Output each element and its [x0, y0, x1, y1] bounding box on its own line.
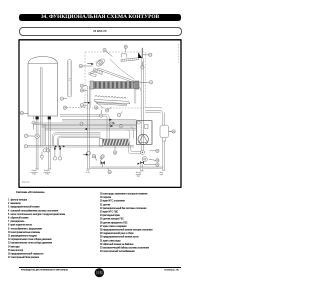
- tag 21 leader: [101, 158, 102, 161]
- numbered tag circles: [20, 45, 175, 174]
- air vent on pump: [137, 120, 148, 129]
- tag 15 leader: [106, 51, 112, 56]
- plate hx outlet elbow: [129, 146, 141, 154]
- tag 12: [149, 53, 152, 56]
- pressure test points: [53, 147, 62, 160]
- tag 11 leader: [84, 85, 87, 87]
- tag 28 leader: [169, 131, 172, 133]
- tag 10 leader: [84, 89, 87, 91]
- tag 3: [60, 97, 63, 100]
- legend left column: [8, 198, 65, 259]
- tag 24: [108, 170, 111, 173]
- tag 27: [80, 122, 83, 125]
- tag 21: [101, 155, 104, 158]
- heating return stub: [48, 119, 50, 169]
- main heat exchanger: [90, 81, 139, 89]
- tag 9 leader: [84, 104, 88, 106]
- tag 17: [105, 109, 108, 112]
- tag 2 leader: [28, 135, 35, 137]
- safety valve: [32, 116, 36, 129]
- tag 20: [92, 155, 95, 158]
- tag 13: [141, 66, 144, 69]
- combustion hood: [88, 59, 137, 83]
- diagram frame: [19, 40, 181, 188]
- fan: [95, 58, 105, 68]
- header banner: [19, 14, 181, 22]
- hydraulic inlet elbows: [127, 127, 133, 139]
- tag 4: [149, 81, 152, 84]
- filling valves: [43, 147, 50, 152]
- gas valve node: [83, 151, 90, 155]
- tag 19 leader: [67, 107, 85, 109]
- burner arrow: [83, 101, 88, 103]
- burner with injectors: [94, 96, 130, 109]
- fan arrow: [87, 62, 92, 65]
- tag 30: [156, 159, 159, 162]
- pipe run h7: [52, 133, 100, 146]
- legend left header: [16, 191, 45, 194]
- tag 23 leader: [114, 146, 116, 151]
- pipe run h3: [62, 120, 136, 121]
- footer left text: [21, 269, 68, 271]
- stub label: dhw outlet: [135, 172, 142, 177]
- expansion tank: [28, 57, 58, 117]
- tag 19: [63, 106, 66, 109]
- model pill: [19, 27, 182, 36]
- flow arrows on pipes: [55, 119, 115, 147]
- left riser pair: [44, 124, 45, 145]
- pipe run h9: [27, 146, 134, 147]
- flue duct dashed box: [177, 44, 179, 63]
- pipe run h6: [45, 129, 137, 130]
- tag 23: [113, 151, 116, 154]
- pipe run h8: [57, 136, 100, 146]
- pipe run h5: [42, 126, 137, 127]
- tag 18: [94, 106, 97, 109]
- stub label: heating flow: [30, 170, 38, 175]
- return tap valve: [35, 134, 39, 138]
- footer right code: [164, 269, 179, 271]
- gas riser pipe: [88, 86, 90, 169]
- stub label: heating return: [43, 170, 51, 175]
- flow stub tap square: [36, 117, 39, 120]
- pipe run h10 cold water bottom: [90, 167, 163, 168]
- tag 25: [119, 125, 122, 128]
- footer rule: [19, 266, 181, 269]
- legend right column: [100, 192, 153, 253]
- dhw flow sensor: [140, 150, 147, 161]
- tag 29: [156, 149, 159, 152]
- tag 24 leader: [108, 168, 109, 170]
- pipe run h2: [60, 115, 109, 139]
- tag 14: [79, 64, 82, 67]
- tank internal pipe: [41, 67, 43, 146]
- tag 22 leader: [24, 112, 29, 115]
- drain valve: [41, 152, 44, 160]
- plate heat exchanger: [99, 138, 130, 146]
- downcomer pipe: [141, 59, 143, 151]
- tag 1: [24, 145, 27, 148]
- page number badge: [95, 268, 104, 277]
- tag 7 leader: [120, 112, 123, 114]
- stub label: gas: [85, 170, 91, 174]
- tag 16 leader: [125, 49, 127, 53]
- dhw outlet stub: [141, 164, 143, 171]
- tag 31: [156, 163, 159, 166]
- hx right elbow: [135, 85, 141, 91]
- stub label: cold inlet: [159, 172, 164, 176]
- collector bracket: [121, 54, 127, 58]
- sealed chamber dashed box: [85, 52, 145, 108]
- dhw filter body: [160, 125, 172, 141]
- pump box: [136, 121, 152, 145]
- tag 4 leader: [140, 81, 149, 83]
- tag 30 leader: [149, 159, 156, 160]
- flue manifold: [121, 58, 139, 62]
- tag 8: [100, 114, 103, 117]
- bypass valve: [100, 156, 105, 167]
- tag 31 leader: [144, 164, 156, 166]
- return stub tap square: [48, 117, 51, 120]
- chamber side walls: [91, 89, 136, 107]
- tag 22: [20, 111, 23, 114]
- bottom-left note: [22, 181, 30, 183]
- tag 29 leader: [150, 150, 156, 152]
- cold water drop pipe: [163, 141, 165, 170]
- condensate tube: [67, 60, 71, 97]
- flue clamp flag: [138, 48, 142, 59]
- tag 20 leader: [95, 155, 96, 161]
- tag 2: [24, 134, 27, 137]
- tag 13 leader: [141, 62, 143, 66]
- tag 16: [124, 45, 127, 48]
- pipe run h1: [145, 111, 164, 126]
- venturi duct: [90, 68, 103, 77]
- tag 12 leader: [143, 54, 149, 56]
- tag 7: [117, 113, 120, 116]
- tag 28: [172, 130, 175, 133]
- dhw outlet valve: [140, 161, 144, 164]
- tag 14 leader: [82, 65, 92, 67]
- tag 17 leader: [108, 107, 111, 109]
- tag numerals: [21, 47, 176, 174]
- pump: [138, 134, 148, 144]
- heating flow stub: [36, 119, 38, 169]
- tag 9: [80, 104, 83, 107]
- tag 3 leader: [64, 97, 68, 99]
- tag 15: [103, 48, 106, 51]
- tag 10: [80, 89, 83, 92]
- stub end flanges: [35, 169, 165, 171]
- pipe run h4: [34, 123, 137, 124]
- chamber outlet line: [145, 107, 162, 109]
- tag 26: [110, 122, 113, 125]
- gas arrow: [86, 154, 89, 156]
- tag 8 leader: [100, 110, 102, 114]
- tag 11: [80, 84, 83, 87]
